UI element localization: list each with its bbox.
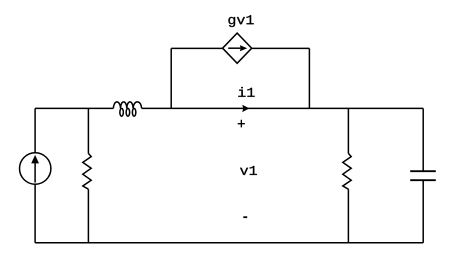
resistor R1 zigzag: [83, 153, 91, 189]
wire: branch top, left of diamond: [171, 47, 223, 49]
resistor R2 zigzag: [343, 153, 351, 189]
current source I1 arrow head: [31, 155, 39, 164]
resistor R2 top lead: [347, 108, 349, 153]
capacitor C1 top plate: [410, 170, 436, 172]
dependent source gv1 arrow head: [240, 45, 247, 51]
wire: branch top, right of diamond: [252, 47, 310, 49]
label gv1: [228, 15, 253, 27]
label + (v1 polarity): [238, 120, 245, 128]
label i1: [238, 87, 254, 97]
wire: left branch above current source: [34, 108, 36, 152]
inductor L1 loop 1: [120, 108, 124, 116]
dependent current source gv1 diamond: [223, 33, 252, 63]
resistor R1 bottom lead: [87, 189, 89, 243]
capacitor C1 top lead: [422, 108, 424, 171]
wire: bottom rail (node v1-): [35, 242, 423, 244]
resistor R2 bottom lead: [347, 189, 349, 243]
dependent source gv1 arrow shaft: [228, 47, 240, 49]
capacitor C1 bottom lead: [422, 180, 424, 243]
resistor R1 top lead: [87, 108, 89, 153]
label - (v1 polarity): [243, 216, 247, 218]
current arrow i1 on top rail: [242, 105, 249, 112]
wire: dependent-source branch right vertical: [308, 48, 310, 108]
label v1: [240, 166, 257, 175]
wire: dependent-source branch left vertical: [170, 48, 172, 108]
wire: left branch below current source: [34, 184, 36, 243]
inductor L1 loop 3: [132, 108, 136, 116]
current source I1 circle: [20, 153, 51, 184]
capacitor C1 bottom plate: [410, 179, 436, 181]
current source I1 arrow shaft: [34, 162, 36, 183]
inductor L1 humps: [113, 102, 141, 109]
wire: top rail (node v1+) left segment: [35, 107, 113, 109]
wire: top rail right of inductor: [142, 107, 424, 109]
inductor L1 loop 2: [126, 108, 129, 116]
